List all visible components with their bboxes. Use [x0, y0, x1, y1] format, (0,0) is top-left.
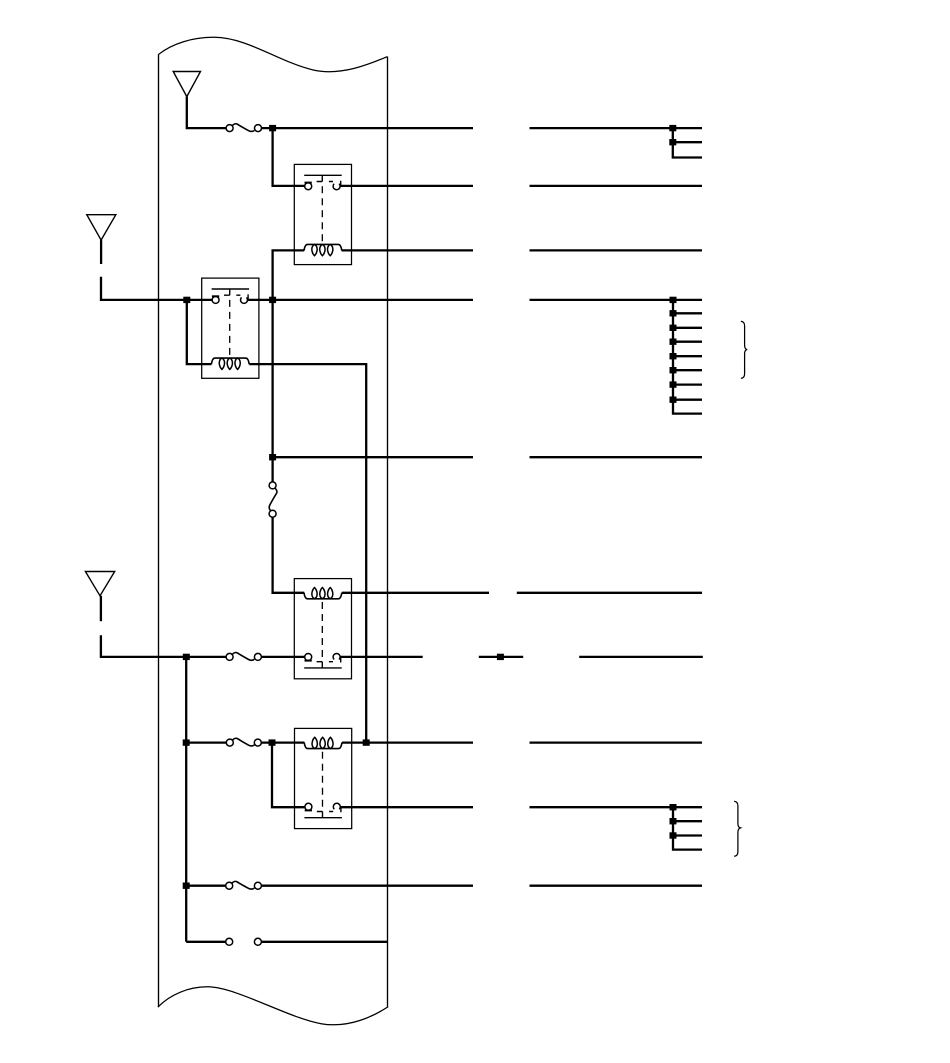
antenna E2: [87, 215, 116, 240]
wire row6 right segment: [530, 456, 703, 458]
left border of panel strip: [158, 55, 160, 1007]
relay K4 contact left: [305, 803, 312, 810]
wire ladder stub 5: [673, 355, 702, 357]
node J6 row6: [269, 454, 276, 460]
switch S1 open contact: [226, 938, 262, 945]
wire left column J7 down: [185, 657, 187, 942]
fuse F1: [226, 124, 261, 132]
node J10 row9: [269, 739, 276, 745]
node J3 row1 branch: [669, 139, 676, 145]
relay K4 (inverted): [295, 728, 352, 828]
node J8 row8 middle: [497, 654, 504, 660]
node J20 ladder: [670, 397, 677, 403]
relay K2 coil loop 3: [235, 358, 240, 369]
wire row9 K4 coil out: [342, 741, 473, 743]
relay K1: [294, 164, 351, 264]
wire row7 K3 coil out: [342, 592, 489, 594]
wire row8 middle segment: [479, 656, 523, 658]
node J18 ladder: [670, 367, 677, 373]
relay K2 contact left: [212, 296, 219, 303]
relay K2 mechanical link: [229, 300, 231, 358]
wire ladder stub row10-2: [673, 820, 702, 822]
node J7 row8: [183, 654, 190, 660]
node J15 ladder: [670, 325, 677, 331]
wire row11 fuse to gap: [261, 885, 473, 887]
relay K2 coil loop 2: [227, 358, 232, 369]
relay K4 mechanical link: [322, 749, 324, 807]
wire row10 right segment: [530, 806, 703, 808]
wire row12 from left column to switch: [186, 941, 226, 943]
relay K4 armature bar: [304, 817, 342, 819]
wire K2 coil out to down column: [249, 364, 366, 742]
wire J10 down to K4 contact: [272, 743, 305, 808]
wire row1 branch down and stub: [673, 128, 702, 157]
wire row11 right segment: [530, 885, 703, 887]
right border of panel strip: [387, 57, 389, 1007]
relay K3 coil loop 2: [320, 588, 325, 599]
wire row10 ladder vertical and bottom stub: [673, 807, 702, 849]
wire row10 K4 contact out: [340, 806, 473, 808]
relay K3 coil loop 1: [312, 588, 317, 599]
wire ladder stub 3: [673, 327, 702, 329]
brace group upper: [741, 321, 747, 378]
relay K4 armature stem: [317, 807, 341, 818]
node J4 row4: [183, 297, 190, 303]
wire row2 K1 contact out: [340, 185, 473, 187]
relay K2: [202, 278, 259, 378]
relay K1 armature stem: [317, 175, 341, 186]
wire antenna E2 lead upper: [100, 240, 102, 264]
wire J4 down to K2 coil: [187, 300, 212, 364]
relay K1 coil outline: [304, 244, 342, 250]
relay K1 contact right: [333, 184, 340, 190]
fuse F4: [226, 881, 262, 889]
wire row2 right segment: [530, 185, 703, 187]
relay K1 contact left: [305, 183, 312, 190]
wire row1 right segment: [530, 127, 703, 129]
wire row9 right segment: [530, 741, 703, 743]
wire row12 switch to right border: [261, 941, 387, 943]
wire row1 fuse to gap: [262, 127, 474, 129]
relay K3 armature stem: [317, 657, 341, 668]
node J23 ladder: [670, 832, 677, 838]
wire row3 K1 coil out: [342, 249, 473, 251]
relay K1 coil loop 3: [328, 244, 333, 255]
node J16 ladder: [670, 339, 677, 345]
relay K2 contact left cap: [212, 295, 219, 297]
node J11 row9 column join: [363, 739, 370, 745]
antenna E3: [85, 572, 114, 596]
relay K4 coil outline: [304, 742, 342, 748]
node J22 ladder: [670, 818, 677, 824]
wire antenna E1 lead-in: [187, 97, 226, 129]
relay K1 armature bar: [304, 174, 342, 176]
wire row7 right segment: [517, 592, 702, 594]
wire row4 K2 contact out: [248, 299, 474, 301]
node J5 row4 four-way: [269, 297, 276, 303]
wire J1 down to relay K1 contact: [273, 128, 305, 186]
relay K2 coil loop 1: [219, 358, 224, 369]
wire row9 J9 to fuse F3: [186, 741, 226, 743]
node J12 row11 left: [183, 883, 190, 889]
relay K2 armature bar: [212, 288, 250, 290]
relay K4 contact right: [333, 803, 340, 809]
torn edge top: [158, 37, 387, 71]
relay K1 coil loop 1: [312, 244, 317, 255]
relay K2 contact right: [241, 297, 248, 303]
relay K3 armature bar: [304, 667, 342, 669]
wire antenna E2 lead lower to relay K2: [101, 277, 212, 300]
wire ladder stub row10-3: [673, 834, 702, 836]
node J13 row4 ladder top: [670, 297, 677, 303]
wire row4 ladder vertical and bottom stub: [673, 300, 702, 414]
node J17 ladder: [670, 353, 677, 359]
wire antenna E3 lead lower to fuse F2: [101, 635, 226, 657]
brace group lower: [734, 801, 740, 856]
wire row4 right segment: [530, 299, 703, 301]
wire row6 left segment: [273, 456, 473, 458]
relay K3 contact left cap: [305, 660, 312, 662]
node J2 row1 branch: [669, 125, 676, 131]
wire row9 fuse to K4 coil: [261, 741, 304, 743]
node J1 row1: [269, 125, 276, 131]
fuse F5 vertical: [269, 482, 277, 517]
wire row8 fuse to K3 contact: [261, 656, 304, 658]
relay K1 mechanical link: [321, 186, 323, 244]
wire ladder stub 4: [673, 341, 702, 343]
node J19 ladder: [670, 381, 677, 387]
relay K3 coil outline: [304, 593, 342, 599]
relay K3 contact left: [305, 654, 312, 661]
wire row3 right segment: [530, 249, 703, 251]
wire vertical fuse down to K3 coil: [273, 517, 305, 593]
relay K3 (inverted): [294, 579, 351, 679]
wire K1 coil feed from left column: [273, 250, 305, 299]
relay K1 coil loop 2: [320, 244, 325, 255]
fuse F3: [226, 738, 261, 746]
relay K4 coil loop 2: [320, 737, 325, 748]
node J14 ladder: [670, 310, 677, 316]
relay K4 contact left cap: [305, 809, 312, 811]
node J21 row10 ladder top: [670, 804, 677, 810]
relay K3 contact right: [333, 653, 340, 659]
node J9 row9 left: [183, 739, 190, 745]
relay K2 coil outline: [211, 358, 249, 364]
wire row1 middle stub: [673, 141, 702, 143]
relay K1 contact left cap: [305, 182, 312, 184]
wire row11 J12 to fuse F4: [186, 885, 226, 887]
relay K4 coil loop 1: [312, 737, 317, 748]
wire ladder stub 6: [673, 369, 702, 371]
wire ladder stub 2: [673, 312, 702, 314]
wire antenna E3 lead upper: [100, 596, 102, 621]
fuse F2: [226, 653, 261, 661]
antenna E1: [173, 72, 200, 97]
wire ladder stub 8: [673, 399, 702, 401]
relay K4 coil loop 3: [328, 737, 333, 748]
wire ladder stub 7: [673, 383, 702, 385]
relay K3 coil loop 3: [328, 588, 333, 599]
relay K3 mechanical link: [321, 599, 323, 657]
torn edge bottom: [158, 987, 388, 1025]
wire row8 right segment: [579, 656, 703, 658]
wire left column J5 down to vertical fuse: [271, 300, 273, 482]
relay K2 armature stem: [224, 289, 248, 300]
wire row8 K3 contact out: [340, 656, 423, 658]
